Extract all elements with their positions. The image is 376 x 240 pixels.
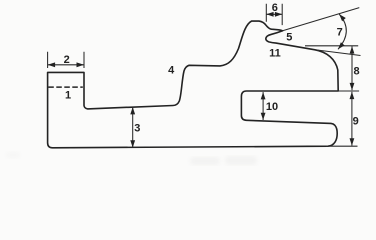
svg-text:7: 7 — [337, 26, 343, 38]
svg-text:10: 10 — [266, 101, 278, 113]
svg-text:3: 3 — [134, 123, 140, 135]
svg-text:5: 5 — [286, 31, 292, 43]
svg-text:9: 9 — [353, 116, 359, 128]
svg-text:1: 1 — [65, 90, 71, 102]
svg-text:2: 2 — [64, 54, 70, 66]
svg-text:8: 8 — [354, 66, 360, 78]
svg-text:6: 6 — [272, 2, 278, 14]
svg-text:11: 11 — [269, 48, 281, 60]
svg-text:4: 4 — [168, 64, 175, 76]
